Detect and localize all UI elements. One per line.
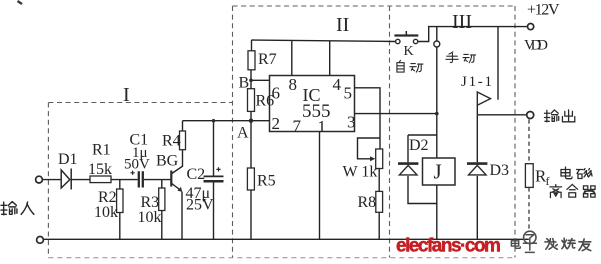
label clutch (dianci liheqi) xyxy=(550,167,595,198)
switch K button bar xyxy=(394,34,418,36)
svg-text:6: 6 xyxy=(272,84,281,103)
capacitor C2 xyxy=(204,175,224,177)
watermark logo circle zi xyxy=(523,231,537,252)
capacitor C1 xyxy=(139,171,143,187)
svg-text:3: 3 xyxy=(347,113,356,132)
wire IC pin3 to relay line xyxy=(355,113,437,115)
terminal output xyxy=(527,112,534,119)
wire R3 drop xyxy=(161,180,163,188)
wire R8 to ground rail xyxy=(378,212,380,239)
wire wiper bracket of W xyxy=(358,138,381,159)
resistor R2 xyxy=(117,189,123,213)
frame box I dashed border xyxy=(48,103,232,258)
svg-text:7: 7 xyxy=(293,117,302,136)
scan artifact top left xyxy=(18,1,23,4)
svg-text:D3: D3 xyxy=(490,162,510,179)
terminal input bottom xyxy=(37,237,44,244)
wire C1 to BG base xyxy=(144,179,171,181)
capacitor C2 plus sign xyxy=(216,167,220,171)
svg-text:10k: 10k xyxy=(94,204,118,221)
wire R6 bottom to node A xyxy=(250,111,252,120)
wire manual contact to relay J xyxy=(436,47,438,158)
wire output tee down to D3 xyxy=(476,115,478,163)
wire ground rail bottom xyxy=(44,238,529,240)
resistor R3 xyxy=(159,188,165,211)
svg-text:J: J xyxy=(434,160,442,184)
svg-text:R1: R1 xyxy=(92,142,111,159)
svg-text:D1: D1 xyxy=(58,151,78,168)
svg-text:D2: D2 xyxy=(409,137,429,154)
wire R1 to C1 xyxy=(111,179,138,181)
transistor BG xyxy=(170,171,172,187)
watermark text dianzi fashaoyou xyxy=(511,238,590,250)
svg-text:5: 5 xyxy=(344,84,353,103)
svg-text:15k: 15k xyxy=(88,161,112,178)
wire node A to R5 xyxy=(250,121,252,168)
wire K switch to +12V rail xyxy=(418,27,528,42)
frame bottom dashed edge xyxy=(48,257,515,259)
svg-text:III: III xyxy=(452,11,472,33)
wire J1-1 blade from +12V rail xyxy=(497,27,499,100)
wire R5 to ground rail xyxy=(250,190,252,239)
svg-text:BG: BG xyxy=(156,153,179,170)
diode D2 xyxy=(398,162,418,165)
junction dot pin3 relay tee xyxy=(435,112,439,116)
wire R2 drop xyxy=(119,180,121,189)
wire R2 to ground rail xyxy=(119,213,121,240)
wire C2 to ground rail xyxy=(213,181,215,239)
frame box II and III dashed borders xyxy=(233,6,516,258)
wire BG collector to R4 xyxy=(172,150,183,174)
terminal +12V xyxy=(528,24,534,30)
potentiometer W body xyxy=(376,149,383,169)
wire input top lead xyxy=(43,179,62,181)
wire IC pin4 drop xyxy=(329,41,331,76)
label auto (zidong) xyxy=(397,60,423,72)
switch K contacts xyxy=(396,39,400,43)
relay contact J1-1 triangle xyxy=(477,92,490,105)
svg-text:W 1k: W 1k xyxy=(343,164,378,181)
wire R3 to ground rail xyxy=(161,211,163,240)
wire R7 to R6 node B segment xyxy=(250,70,252,89)
relay coil J box xyxy=(423,158,456,185)
resistor R6 xyxy=(248,89,255,112)
svg-text:f: f xyxy=(546,174,550,188)
svg-text:R8: R8 xyxy=(358,194,377,211)
wire D2 bottom bracket xyxy=(408,176,437,204)
wire J1-1 fixed lead to output tee xyxy=(476,105,478,115)
svg-text:B: B xyxy=(239,75,250,92)
wire VCC rail of stage II xyxy=(252,40,396,42)
svg-text:555: 555 xyxy=(302,101,331,122)
wire IC pin8 drop xyxy=(291,40,293,75)
wire R7 top to VCC rail xyxy=(251,40,253,51)
wire IC pin5 stub to divider xyxy=(355,88,381,149)
wire node B to IC pin6 xyxy=(251,79,270,81)
wire D3 to ground rail xyxy=(476,176,478,239)
wire R4 top to node line A xyxy=(182,121,184,131)
svg-text:10k: 10k xyxy=(138,209,162,226)
resistor Rf xyxy=(525,164,533,188)
svg-text:4: 4 xyxy=(333,75,342,94)
manual contact circle xyxy=(434,41,440,47)
wire IC pin1 to ground rail xyxy=(319,132,321,240)
wire manual contact stub xyxy=(436,27,438,41)
resistor R8 xyxy=(376,191,383,212)
wire Rf dashed connection bottom xyxy=(528,187,530,232)
svg-text:VDD: VDD xyxy=(524,38,548,54)
label manual (shoudong) xyxy=(446,52,476,63)
potentiometer W wiper arrowhead xyxy=(370,156,375,161)
capacitor C1 plus sign xyxy=(131,171,135,175)
label input (shuru) xyxy=(1,202,34,215)
svg-text:R7: R7 xyxy=(258,51,277,68)
wire C2 drop xyxy=(213,121,215,176)
svg-text:C2: C2 xyxy=(187,166,206,183)
wire output tee to terminal xyxy=(477,114,526,116)
svg-text:A: A xyxy=(237,125,249,142)
svg-text:II: II xyxy=(336,14,349,36)
junction dot C2 tap xyxy=(212,119,215,122)
resistor R5 xyxy=(247,168,254,190)
op IC 555 body xyxy=(270,76,355,132)
diode D3 xyxy=(467,162,487,165)
diode D1 xyxy=(61,169,71,190)
svg-text:R5: R5 xyxy=(257,173,276,190)
terminal input top xyxy=(36,176,43,183)
resistor R7 xyxy=(248,51,255,70)
wire Rf dashed connection top xyxy=(528,119,530,163)
wire BG emitter to ground rail xyxy=(181,192,183,240)
resistor R4 xyxy=(180,131,186,150)
node A junction dot xyxy=(249,119,253,123)
svg-text:+12V: +12V xyxy=(527,1,560,18)
svg-text:50V: 50V xyxy=(124,157,150,173)
wire horizontal line A from R4 to IC pin2 xyxy=(183,120,270,122)
wire D1 to R1 xyxy=(71,179,90,181)
label output (shuchu) xyxy=(544,110,574,122)
svg-text:2: 2 xyxy=(272,114,281,133)
svg-text:1: 1 xyxy=(318,117,327,136)
node B junction dot xyxy=(249,79,253,83)
wire D2 top bracket xyxy=(408,135,437,162)
svg-text:I: I xyxy=(123,84,130,106)
wire W bottom to R8 xyxy=(378,169,380,192)
svg-text:J1-1: J1-1 xyxy=(461,74,492,90)
svg-text:elecfans·com: elecfans·com xyxy=(396,236,500,257)
svg-text:8: 8 xyxy=(289,75,298,94)
svg-text:25V: 25V xyxy=(186,197,214,214)
svg-text:R4: R4 xyxy=(162,133,181,150)
resistor R1 xyxy=(90,176,111,183)
wire relay J to ground rail xyxy=(436,185,438,239)
svg-text:K: K xyxy=(404,44,414,59)
